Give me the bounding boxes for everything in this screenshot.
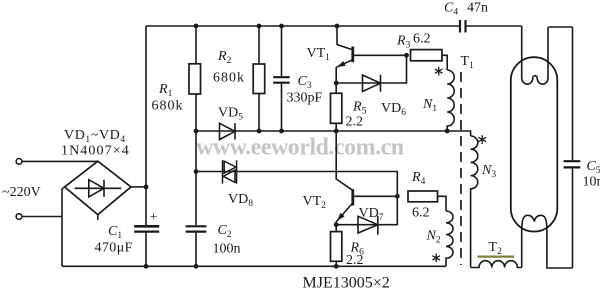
- svg-text:47n: 47n: [467, 1, 488, 16]
- junction bottom rail R6: [334, 264, 339, 269]
- bridge rectifier VD1-VD4 diamond: [65, 161, 131, 215]
- terminal top: [16, 159, 22, 165]
- lamp bottom leads: [522, 231, 573, 268]
- wire AC top terminal lead: [22, 160, 98, 162]
- wire C3 branch vertical x=281.5: [281, 26, 283, 131]
- junction mid line N1 bottom: [445, 129, 450, 134]
- wire bridge left vertex down to bottom rail: [62, 188, 64, 267]
- svg-text:VD1~VD4: VD1~VD4: [64, 128, 126, 145]
- svg-text:2.2: 2.2: [346, 115, 364, 130]
- diac VD8: [223, 160, 237, 183]
- junction VT2 base node: [395, 194, 400, 199]
- transistor VT2: [336, 131, 352, 225]
- bridge inner diode: [75, 180, 122, 197]
- resistor R6: [335, 225, 337, 267]
- junction VD8 line left: [194, 169, 199, 174]
- capacitor C5 bars: [564, 161, 581, 167]
- junction mid line R5 bottom: [334, 129, 339, 134]
- junction top rail R1: [194, 24, 199, 29]
- polarity mark N2: [432, 254, 440, 263]
- resistor R4: [408, 191, 438, 202]
- lamp bottom filament: [522, 215, 547, 231]
- junction top rail VT1 collector: [335, 24, 340, 29]
- wire bridge output to C1 node: [131, 186, 146, 188]
- winding N1: [447, 70, 454, 131]
- capacitor C3 bars: [273, 77, 290, 83]
- svg-text:MJE13005×2: MJE13005×2: [303, 275, 390, 289]
- capacitor C4 bars: [460, 20, 466, 33]
- wire C5 vertical: [572, 27, 574, 268]
- transformer T1 core dashed: [460, 72, 462, 265]
- diode VD5: [220, 123, 236, 139]
- wire AC bottom terminal lead: [22, 216, 63, 218]
- junction mid line R1 branch: [194, 129, 199, 134]
- inductor T2 winding: [471, 261, 522, 268]
- capacitor C1 bars: [134, 225, 159, 228]
- wire bottom rail: [62, 265, 446, 267]
- wire top rail: [146, 25, 522, 27]
- capacitor C2 bars: [186, 226, 207, 231]
- lamp top pins: [522, 26, 548, 77]
- junction bottom rail C1: [144, 264, 149, 269]
- transistor VT1: [336, 26, 352, 83]
- resistor R3: [411, 50, 443, 61]
- diode VD6 loop from VT1 emitter to base: [336, 55, 406, 91]
- junction VT1 emitter node: [334, 81, 339, 86]
- wire mid line y=131: [196, 131, 471, 136]
- wire R1 branch vertical x=196: [195, 26, 197, 266]
- svg-text:6.2: 6.2: [413, 32, 431, 47]
- svg-text:1N4007×4: 1N4007×4: [61, 144, 130, 159]
- wire bridge bottom stub: [97, 215, 99, 220]
- junction top rail C3: [279, 24, 284, 29]
- lamp top filament: [522, 76, 548, 84]
- wire left border vertical: [145, 26, 147, 266]
- svg-text:680k: 680k: [152, 99, 184, 114]
- svg-text:680k: 680k: [213, 71, 245, 86]
- resistor R2: [253, 64, 265, 94]
- svg-text:2.2: 2.2: [346, 253, 364, 268]
- svg-text:www.eeworld.com.cn: www.eeworld.com.cn: [196, 135, 404, 161]
- diode VD7 loop from VT2 emitter to base: [336, 196, 397, 234]
- fluorescent lamp tube: [511, 57, 558, 231]
- junction top rail R2: [257, 24, 262, 29]
- inductor T2 core line: [478, 256, 515, 258]
- resistor R1: [189, 64, 201, 94]
- resistor R5: [335, 83, 337, 131]
- wire top jog lamp to C5: [549, 26, 573, 28]
- svg-text:6.2: 6.2: [412, 206, 430, 221]
- winding N3: [471, 136, 478, 268]
- junction mid line C3 bottom: [279, 129, 284, 134]
- terminal bottom: [16, 214, 22, 220]
- winding N2: [446, 211, 453, 266]
- polarity mark N3: [478, 135, 486, 144]
- wire VD8 line y=171.5 and drop to VT2 base: [196, 172, 397, 197]
- svg-text:470μF: 470μF: [95, 241, 133, 256]
- svg-text:10n: 10n: [583, 175, 600, 190]
- junction mid line R2 bottom: [257, 129, 262, 134]
- junction VT2 emitter node: [334, 222, 339, 227]
- polarity mark N1: [435, 67, 443, 76]
- wire R2 branch vertical x=259: [258, 26, 260, 131]
- junction VT1 base node: [404, 53, 409, 58]
- svg-text:100n: 100n: [213, 242, 241, 257]
- svg-text:~220V: ~220V: [2, 185, 41, 200]
- junction bridge positive output: [144, 185, 149, 190]
- svg-text:+: +: [150, 210, 158, 225]
- svg-text:330pF: 330pF: [287, 91, 323, 106]
- junction bottom rail C2: [194, 264, 199, 269]
